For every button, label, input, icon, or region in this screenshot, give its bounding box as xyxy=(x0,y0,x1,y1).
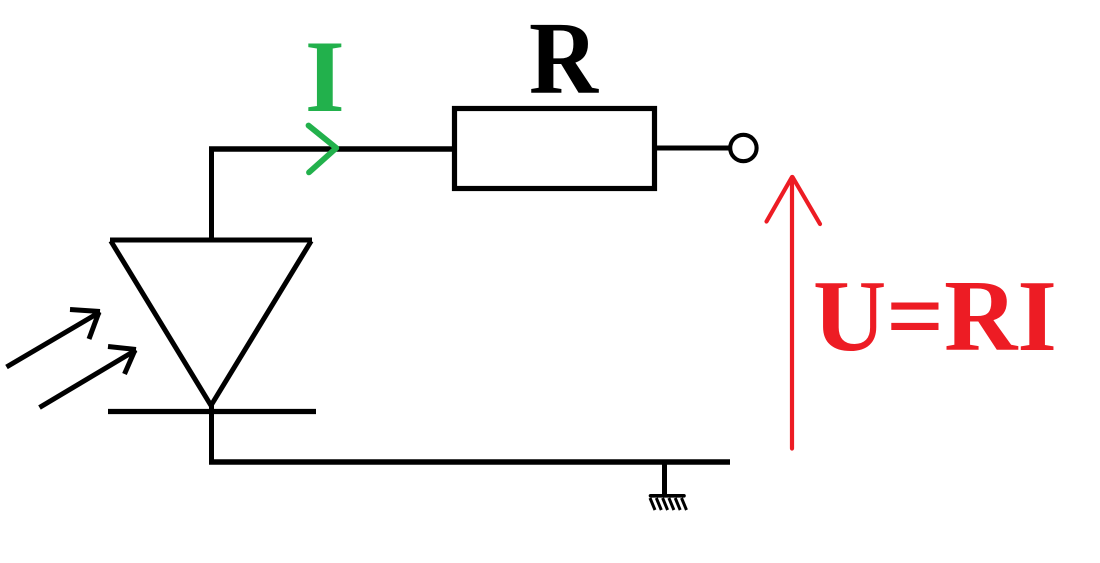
current arrow (green chevron) xyxy=(309,126,337,173)
ground symbol (earth bar + hatching) xyxy=(650,496,687,510)
svg-text:R: R xyxy=(529,1,600,116)
light arrow 2 xyxy=(40,347,137,408)
wire: diode anode up to corner xyxy=(209,147,214,243)
svg-text:U=RI: U=RI xyxy=(813,260,1057,372)
resistor R1 body xyxy=(455,109,655,189)
wire: top horizontal to resistor xyxy=(209,146,456,152)
wire: bottom ground rail xyxy=(209,459,730,464)
photodiode D1 cathode bar xyxy=(108,409,316,414)
photodiode D1: top edge xyxy=(110,238,312,243)
photodiode D1: left slope xyxy=(111,241,211,406)
light arrow 1 xyxy=(7,310,101,368)
output terminal node (open circle) xyxy=(730,135,756,161)
voltage arrow U (red) xyxy=(767,177,821,449)
svg-text:I: I xyxy=(305,21,345,134)
wire: diode cathode down to bottom rail xyxy=(209,404,214,465)
wire: resistor to output terminal xyxy=(657,146,729,151)
photodiode D1: right slope xyxy=(211,241,311,406)
ground stub xyxy=(662,462,667,495)
